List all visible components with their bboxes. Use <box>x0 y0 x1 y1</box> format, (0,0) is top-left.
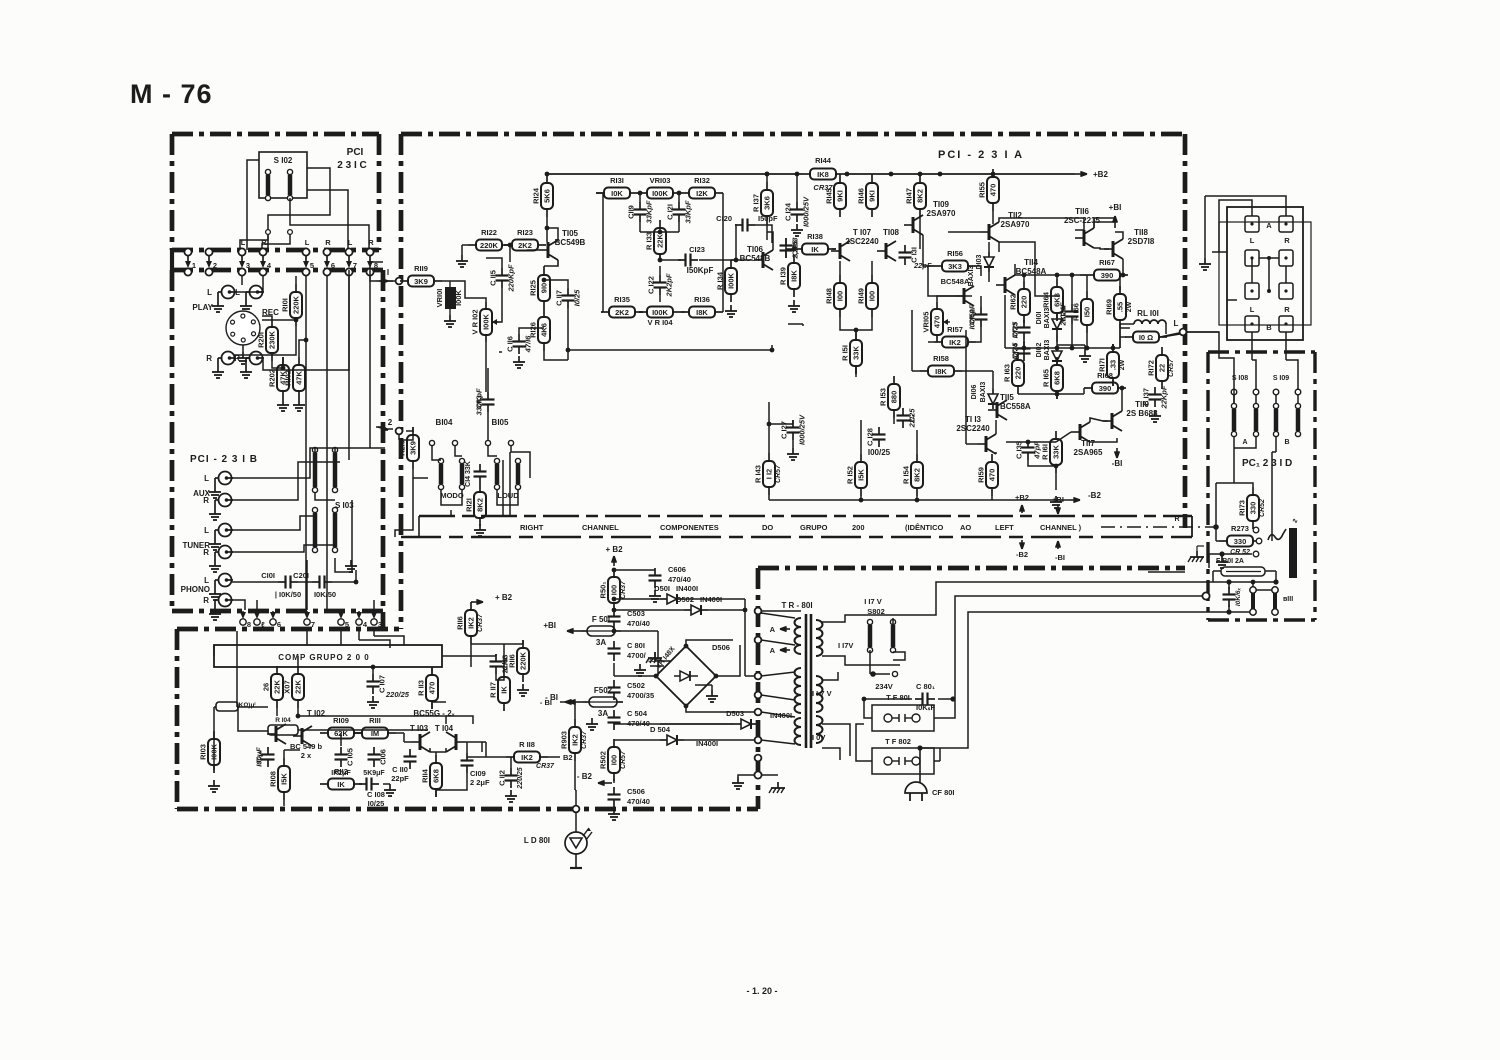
svg-text:R: R <box>1284 236 1290 245</box>
svg-text:22K: 22K <box>656 234 665 248</box>
capacitor CII9 (33KpF) <box>639 202 641 210</box>
svg-text:RI68: RI68 <box>1097 371 1113 380</box>
svg-text:I00K: I00K <box>652 308 668 317</box>
svg-text:RI62: RI62 <box>1009 294 1018 310</box>
capacitor CI25 (2,2/63) <box>785 238 787 246</box>
terminal 8 row2 <box>240 619 246 625</box>
svg-text:470: 470 <box>988 469 997 482</box>
wire T112 to T116 <box>999 242 1060 296</box>
svg-text:IN400I: IN400I <box>676 584 698 593</box>
svg-text:5: 5 <box>345 620 349 629</box>
svg-text:R I65: R I65 <box>1042 369 1051 387</box>
resistor RI09 (62K) <box>320 732 328 734</box>
svg-text:L: L <box>1174 319 1179 328</box>
svg-text:V R I04: V R I04 <box>647 318 673 327</box>
svg-text:2SC2240: 2SC2240 <box>956 424 990 433</box>
resistor RI69 (.55) <box>1119 286 1121 294</box>
capacitor C I2I (33KpF) <box>678 202 680 210</box>
capacitor None (None) <box>1228 587 1230 595</box>
net arrow <box>378 427 388 430</box>
svg-text:I 0V: I 0V <box>812 733 825 742</box>
transformer secondary winding bottom-right <box>816 676 823 685</box>
svg-text:6K8: 6K8 <box>432 769 441 783</box>
net arrow <box>567 630 581 632</box>
svg-text:22/25: 22/25 <box>908 408 917 429</box>
svg-text:RI26: RI26 <box>529 322 538 338</box>
wire T109 collector to bias <box>923 235 934 266</box>
svg-text:TII6: TII6 <box>1075 207 1089 216</box>
svg-text:2K2pF: 2K2pF <box>1059 302 1068 326</box>
svg-text:2 x: 2 x <box>301 751 312 760</box>
svg-text:CR57: CR57 <box>775 464 782 483</box>
svg-text:BAXI3: BAXI3 <box>1044 340 1051 361</box>
long wires lower box <box>236 645 238 707</box>
svg-text:PLAY: PLAY <box>192 303 213 312</box>
node L output <box>1180 329 1187 336</box>
svg-text:R2I9: R2I9 <box>398 440 407 456</box>
wires left col <box>768 424 770 453</box>
resistor RI48 (I00) <box>839 275 841 283</box>
svg-text:6K8: 6K8 <box>1053 371 1062 385</box>
svg-text:220K: 220K <box>519 651 528 670</box>
wire T105 collector up <box>547 228 558 240</box>
svg-text:22K: 22K <box>294 680 303 694</box>
switch contact bar <box>1231 403 1236 408</box>
capacitor C I37 (22KpF) <box>1154 387 1156 395</box>
ground <box>214 486 216 492</box>
ground <box>214 608 216 614</box>
capacitor None (None) <box>409 749 411 757</box>
svg-text:PC₁ 2 3 I D: PC₁ 2 3 I D <box>1242 458 1292 469</box>
fuse F 50I (3A) <box>581 630 587 632</box>
resistor RI57 (IK2) <box>934 341 942 343</box>
svg-text:BC55G - 2ₓ: BC55G - 2ₓ <box>413 709 454 718</box>
svg-text:F B0I 2A: F B0I 2A <box>1216 558 1244 565</box>
wires block down to 231D <box>1251 332 1253 360</box>
svg-text:I I 7 V: I I 7 V <box>812 689 832 698</box>
svg-text:R: R <box>1284 305 1290 314</box>
switch contact bar <box>438 458 443 463</box>
svg-text:3K3: 3K3 <box>948 262 962 271</box>
capacitor None (None) <box>479 464 481 472</box>
svg-text:CI4 33K: CI4 33K <box>465 461 472 487</box>
svg-text:2: 2 <box>388 418 393 427</box>
jack R <box>219 546 232 559</box>
resistor R273 (330) <box>1219 540 1227 542</box>
capacitor C I05 (None) <box>340 747 342 755</box>
tone network wires <box>596 192 603 194</box>
ground <box>282 399 284 405</box>
wires output darlington <box>1094 222 1115 228</box>
ground <box>737 777 739 783</box>
jack L <box>222 286 235 299</box>
svg-text:4700/35: 4700/35 <box>627 691 654 700</box>
svg-text:8K2: 8K2 <box>913 468 922 482</box>
board outline power supply box <box>758 566 1185 571</box>
terminal 7 row2 <box>304 619 310 625</box>
svg-text:I00μF: I00μF <box>255 747 264 767</box>
svg-text:L: L <box>241 238 246 247</box>
bridge wires <box>614 675 656 677</box>
svg-text:BAXI3: BAXI3 <box>1044 308 1051 329</box>
svg-text:IK2: IK2 <box>521 753 533 762</box>
svg-text:RI25: RI25 <box>529 280 538 296</box>
ground bridge <box>700 690 712 700</box>
wires diff pair <box>354 732 362 734</box>
svg-text:22: 22 <box>1158 364 1167 372</box>
wires diodes <box>614 598 660 600</box>
bias wires <box>928 266 955 296</box>
-B2 arrow <box>613 779 615 783</box>
ground <box>1084 350 1086 356</box>
resistor RI62 (220) <box>1023 281 1025 289</box>
net arrow <box>1070 499 1080 501</box>
svg-text:COMPONENTES: COMPONENTES <box>660 523 719 532</box>
capacitor None (None) <box>613 710 615 718</box>
capacitor C I22 (2K2pF) <box>659 275 661 283</box>
svg-text:I00: I00 <box>836 291 845 301</box>
svg-text:DI06: DI06 <box>971 385 978 400</box>
svg-text:4K6: 4K6 <box>540 323 549 337</box>
svg-text:I00K: I00K <box>652 189 668 198</box>
svg-text:RI46: RI46 <box>857 188 866 204</box>
capacitor None (None) <box>359 783 367 785</box>
wires tape section <box>241 276 243 285</box>
net arrow <box>1116 448 1118 458</box>
switch S111 block <box>1250 587 1256 593</box>
svg-text:880: 880 <box>890 391 899 404</box>
ground <box>217 300 219 306</box>
resistor RI02 (47K) <box>298 357 300 365</box>
svg-text:4700/: 4700/ <box>627 651 647 660</box>
terminal 6 row2 <box>270 619 276 625</box>
ground <box>591 718 593 724</box>
bridge diode symbol <box>680 671 690 681</box>
resistor RI26 (4K6) <box>543 309 545 317</box>
svg-text:RI64: RI64 <box>1042 291 1051 308</box>
svg-text:TI09: TI09 <box>933 200 950 209</box>
svg-text:5K9μF: 5K9μF <box>363 770 385 777</box>
resistor R I65 (6K8) <box>1056 357 1058 365</box>
ground <box>518 356 520 362</box>
board outline grupo-200 lower box <box>177 627 401 632</box>
svg-text:TI08: TI08 <box>883 228 900 237</box>
svg-text:RI48: RI48 <box>825 288 834 304</box>
svg-text:3A: 3A <box>596 638 606 647</box>
wire terminal 7 riser <box>348 276 350 460</box>
svg-text:22K: 22K <box>273 680 282 694</box>
resistor R I63 (220) <box>1017 352 1019 360</box>
ground <box>213 780 215 786</box>
transistor TII8 (2SD7I8) <box>1112 241 1115 257</box>
capacitor CI52 (I00KpF) <box>980 307 982 315</box>
wire bridge right riser <box>744 599 746 676</box>
svg-text:TII7: TII7 <box>1081 439 1095 448</box>
ground stub <box>613 663 615 676</box>
svg-text:I I7V: I I7V <box>838 641 853 650</box>
wire output right <box>467 741 486 743</box>
svg-text:3K9: 3K9 <box>409 441 418 455</box>
svg-text:C I22: C I22 <box>647 276 656 294</box>
resistor RI59 (470) <box>991 454 993 462</box>
svg-text:470: 470 <box>989 184 998 197</box>
svg-text:R903: R903 <box>560 731 569 749</box>
resistor RI68 (390) <box>1084 387 1092 389</box>
wires grupo box top <box>236 631 238 645</box>
resistor RI55 (470) <box>992 169 994 177</box>
svg-text:RI49: RI49 <box>857 288 866 304</box>
svg-text:PCI: PCI <box>347 147 364 158</box>
terminal 1 <box>184 248 191 255</box>
svg-text:L: L <box>348 238 353 247</box>
net arrow <box>569 701 583 703</box>
svg-text:RI45: RI45 <box>825 188 834 204</box>
transformer core <box>805 614 808 748</box>
psu right wires <box>869 650 871 652</box>
net arrow <box>780 628 790 630</box>
svg-text:RI2I: RI2I <box>465 498 474 512</box>
svg-text:MODO: MODO <box>440 491 463 500</box>
svg-text:RII6: RII6 <box>508 654 517 668</box>
svg-text:RI69: RI69 <box>1105 299 1114 315</box>
ground R122 <box>462 244 468 246</box>
transistor TI I3 (2SC2240) <box>985 436 988 452</box>
wire R147 column <box>919 217 921 249</box>
svg-text:T I04: T I04 <box>435 724 454 733</box>
svg-text:IK: IK <box>337 780 345 789</box>
svg-text:CI23: CI23 <box>689 245 705 254</box>
svg-text:CR57: CR57 <box>620 750 627 769</box>
resistor RII9 (3K9) <box>400 280 408 282</box>
svg-text:I0K/6ₓ: I0K/6ₓ <box>1235 588 1242 607</box>
svg-text:PCI - 2 3 I A: PCI - 2 3 I A <box>938 149 1024 161</box>
jack R <box>222 352 235 365</box>
svg-text:R502: R502 <box>599 751 608 769</box>
svg-text:RI35: RI35 <box>614 295 630 304</box>
svg-text:- BI: - BI <box>540 698 552 707</box>
resistor R II8 (IK2) <box>506 756 514 758</box>
svg-text:8: 8 <box>247 620 251 629</box>
wires right of grupo box <box>442 655 496 657</box>
transistor T I07 (2SC2240) <box>839 243 842 259</box>
jack R <box>250 352 263 365</box>
chassis ground <box>654 652 656 658</box>
svg-text:IM: IM <box>371 729 379 738</box>
terminal 3 row2 <box>371 619 377 625</box>
svg-text:5K6: 5K6 <box>543 189 552 203</box>
svg-text:CF 80I: CF 80I <box>932 788 955 797</box>
resistor X07 (22K) <box>297 666 299 674</box>
resistor RI03 (I00K) <box>213 731 215 739</box>
switch contact bar <box>332 447 337 452</box>
power entry bar <box>1289 528 1297 578</box>
resistor RI22 (220K) <box>468 244 476 246</box>
resistor RI56 (3K3) <box>934 265 942 267</box>
resistor VRI03 (I00K) <box>639 192 647 194</box>
switch 234V contacts <box>892 671 897 676</box>
resistor RIII (IM) <box>354 732 362 734</box>
svg-text:R I43: R I43 <box>754 465 763 483</box>
svg-text:2SA965: 2SA965 <box>1074 448 1103 457</box>
svg-text:C 504: C 504 <box>627 709 648 718</box>
resistor R II7 (IK) <box>503 669 505 677</box>
svg-text:A: A <box>770 646 776 655</box>
ground <box>711 690 713 696</box>
svg-text:T F 802: T F 802 <box>885 737 911 746</box>
ground <box>242 352 244 358</box>
svg-text:2SC2240: 2SC2240 <box>845 237 879 246</box>
capacitor None (None) <box>654 568 656 576</box>
svg-text:I000/25V: I000/25V <box>798 414 807 445</box>
svg-text:R II3: R II3 <box>417 680 426 696</box>
wire R142 to feedback <box>771 345 773 350</box>
capacitor C₁₀ (I00μF) <box>267 747 269 755</box>
svg-text:C503: C503 <box>627 609 645 618</box>
svg-text:R: R <box>325 238 331 247</box>
svg-text:C502: C502 <box>627 681 645 690</box>
svg-text:R: R <box>368 238 374 247</box>
jack L <box>219 472 232 485</box>
svg-text:TI I3: TI I3 <box>965 415 982 424</box>
svg-text:∿: ∿ <box>1292 518 1298 525</box>
board outline PCI-231C <box>172 132 379 137</box>
svg-text:F502: F502 <box>594 686 613 695</box>
svg-text:-BI: -BI <box>1112 459 1123 468</box>
svg-text:DI03: DI03 <box>976 255 983 270</box>
ground <box>214 538 216 544</box>
board outline PCI-231B <box>172 268 383 273</box>
net arrow <box>780 649 790 651</box>
svg-text:I: I <box>387 268 389 277</box>
resistor None (I0 Ω) <box>1125 336 1133 338</box>
svg-text:330KpF: 330KpF <box>475 388 484 416</box>
wire banner right hook <box>1191 516 1193 537</box>
diode D101 BAX13 <box>1056 314 1058 319</box>
svg-text:I0K/50: I0K/50 <box>314 590 336 599</box>
svg-text:RI0I: RI0I <box>281 298 290 312</box>
jack R <box>219 494 232 507</box>
svg-text:F 50I: F 50I <box>592 615 610 624</box>
svg-text:9I0: 9I0 <box>540 283 549 293</box>
svg-text:L: L <box>204 576 209 585</box>
svg-text:B: B <box>1284 439 1289 446</box>
svg-text:I8K: I8K <box>790 270 799 282</box>
selector wires <box>1233 395 1235 404</box>
svg-text:1: 1 <box>192 261 196 270</box>
ground <box>461 255 463 261</box>
wire A to fuse F801 <box>870 582 1204 615</box>
svg-text:PHONO: PHONO <box>181 585 210 594</box>
svg-text:+B2: +B2 <box>1015 493 1029 502</box>
svg-text:CR 52: CR 52 <box>1230 549 1250 556</box>
svg-text:I5K: I5K <box>280 773 289 785</box>
terminal 4 <box>259 248 266 255</box>
svg-text:CR37: CR37 <box>477 613 484 632</box>
ground mid <box>1084 345 1086 350</box>
jack R <box>219 594 232 607</box>
ground <box>389 784 391 790</box>
svg-text:R I54: R I54 <box>902 465 911 484</box>
svg-text:33KpF: 33KpF <box>645 200 654 223</box>
svg-text:CI20: CI20 <box>716 214 732 223</box>
svg-text:C I2I: C I2I <box>666 204 675 220</box>
resistor 26 (22K) <box>276 666 278 674</box>
svg-text:RI23: RI23 <box>517 228 533 237</box>
wire R158 riser <box>911 310 913 371</box>
terminal 4 row2 <box>356 619 362 625</box>
svg-text:RI24: RI24 <box>532 187 541 204</box>
wire row y611 <box>1216 611 1250 613</box>
wire from L node into D box <box>1186 332 1234 404</box>
svg-text:I000/25V: I000/25V <box>802 196 811 227</box>
AC squiggle <box>1268 529 1286 540</box>
wires to banner <box>502 460 504 516</box>
terminal ℓ row2 <box>254 619 260 625</box>
svg-text:22KpF: 22KpF <box>1160 385 1169 409</box>
resistor RI64 (6K8) <box>1056 279 1058 287</box>
transistor TII2 (2SA970) <box>988 224 991 240</box>
left winding connection wires <box>762 610 801 612</box>
potentiometer VRI05 (470) <box>936 302 938 309</box>
switch contact bar <box>332 507 337 512</box>
switch contact bar <box>287 169 292 174</box>
comp grupo 200 outline <box>214 645 442 667</box>
resistor RI2I (8K2) <box>479 484 481 492</box>
svg-text:2SA970: 2SA970 <box>1001 220 1030 229</box>
resistor RI49 (I00) <box>871 275 873 283</box>
svg-text:TII4: TII4 <box>1024 258 1038 267</box>
svg-text:(IDÊNTICO: (IDÊNTICO <box>905 523 943 532</box>
transistor TI09 (2SA970) <box>912 217 915 233</box>
svg-text:RII6: RII6 <box>456 616 465 630</box>
svg-text:VRI05: VRI05 <box>922 312 931 333</box>
svg-text:RI38: RI38 <box>807 232 823 241</box>
svg-text:B2: B2 <box>563 753 573 762</box>
svg-text:C II5: C II5 <box>489 270 498 286</box>
svg-text:RI02: RI02 <box>284 370 293 386</box>
svg-text:RI22: RI22 <box>481 228 497 237</box>
svg-text:LOUD: LOUD <box>497 491 519 500</box>
wire R151 column <box>855 366 857 377</box>
svg-text:33K: 33K <box>1052 445 1061 459</box>
svg-text:R I6I: R I6I <box>1041 444 1050 460</box>
svg-text:220: 220 <box>1020 296 1029 309</box>
svg-text:L: L <box>207 288 212 297</box>
svg-text:V R I02: V R I02 <box>471 309 480 334</box>
resistor RII6 (IK2) <box>470 602 472 610</box>
resistor R I52 (I5K) <box>860 454 862 462</box>
wires MODO/LOUD <box>413 469 428 478</box>
resistor RI73 (330) <box>1252 487 1254 495</box>
resistor RII6 (220K) <box>522 640 524 648</box>
svg-text:2W: 2W <box>1126 301 1133 312</box>
svg-text:IK8: IK8 <box>817 170 829 179</box>
svg-text:220: 220 <box>1014 367 1023 380</box>
svg-text:2SD7I8: 2SD7I8 <box>1128 237 1155 246</box>
wire relay feed <box>1165 324 1167 334</box>
capacitor C20I (None) <box>312 581 320 583</box>
resistor R I54 (8K2) <box>916 454 918 462</box>
wire 2 to R219 from box B <box>383 428 393 430</box>
resistor RI0I (220K) <box>295 284 297 292</box>
svg-text:R I63: R I63 <box>1003 364 1012 382</box>
capacitor C I24 (I000/25V) <box>796 202 798 210</box>
wire rail y275 <box>1015 274 1086 276</box>
svg-text:RII9: RII9 <box>414 264 428 273</box>
resistor R50₁ (I00) <box>613 569 615 577</box>
wire T106 collector <box>767 232 773 250</box>
ground <box>796 224 798 230</box>
